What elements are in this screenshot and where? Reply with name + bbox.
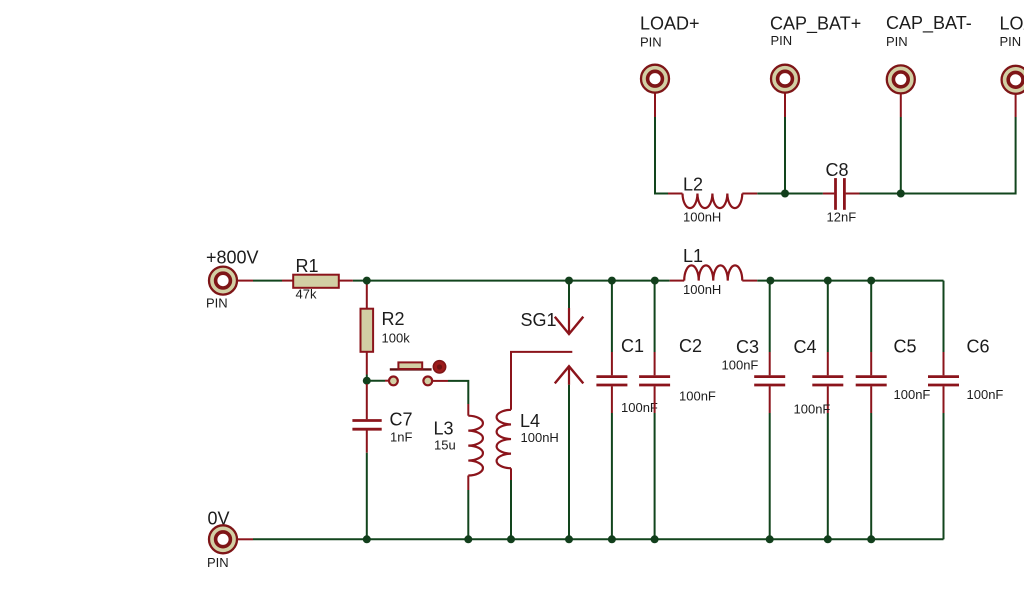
capacitor C7 bbox=[352, 384, 381, 453]
label C2 bbox=[679, 336, 702, 356]
wire +800V to R1 green bbox=[253, 280, 282, 282]
wire top row green L2 to CAP_BAT+ bbox=[757, 193, 785, 195]
value label 100nF (C1) bbox=[621, 400, 658, 415]
inductor L4 with top bar to spark gap bbox=[497, 352, 573, 480]
svg-text:1nF: 1nF bbox=[390, 430, 412, 445]
wire R2 to switch node green bbox=[366, 375, 368, 381]
label R2 bbox=[382, 309, 405, 329]
junction dot SG1 bottom bbox=[565, 535, 573, 543]
svg-text:C2: C2 bbox=[679, 336, 702, 356]
svg-text:100nF: 100nF bbox=[621, 400, 658, 415]
svg-text:+800V: +800V bbox=[206, 248, 259, 268]
wire +800V red stub bbox=[238, 280, 254, 282]
capacitor C6 on right edge bbox=[928, 281, 959, 540]
value label 100nH (L1) bbox=[683, 282, 721, 297]
wire top rail right green bbox=[757, 280, 943, 282]
capacitor C2 bbox=[639, 281, 670, 540]
terminal +800V pin symbol bbox=[209, 267, 237, 295]
wire bottom rail green bbox=[253, 538, 944, 540]
svg-text:R1: R1 bbox=[296, 256, 319, 276]
junction dot at CAP_BAT+ drop bbox=[781, 190, 789, 198]
capacitor C3 bbox=[754, 281, 785, 540]
junction dot C1 top bbox=[608, 277, 616, 285]
terminal LOAD+ label bbox=[640, 14, 700, 50]
junction dot C2 bottom bbox=[651, 535, 659, 543]
terminal CAP_BAT- label bbox=[886, 13, 972, 49]
wire C7 to bottom rail green bbox=[366, 453, 368, 540]
wire L3 to bottom rail green bbox=[467, 490, 469, 539]
junction dot switch node bbox=[363, 377, 371, 385]
svg-text:L4: L4 bbox=[520, 411, 540, 431]
label L1 bbox=[683, 246, 703, 266]
junction dot C3 bottom bbox=[766, 535, 774, 543]
terminal LOAD- pin symbol bbox=[1002, 66, 1024, 94]
svg-text:L1: L1 bbox=[683, 246, 703, 266]
terminal CAP_BAT+ pin symbol bbox=[771, 65, 799, 93]
svg-text:100nF: 100nF bbox=[967, 387, 1004, 402]
capacitor C5 bbox=[856, 281, 887, 540]
wire CAP_BAT- red stub bbox=[900, 94, 902, 117]
wire top rail left green bbox=[353, 280, 670, 282]
junction dot C4 bottom bbox=[824, 535, 832, 543]
wire switch node to left contact bbox=[367, 380, 389, 382]
svg-text:CAP_BAT+: CAP_BAT+ bbox=[770, 14, 861, 35]
wire LOAD- down green bbox=[901, 117, 1016, 194]
resistor R1 bbox=[282, 275, 353, 288]
resistor R2 bbox=[361, 281, 374, 375]
svg-text:C4: C4 bbox=[794, 337, 817, 357]
label L2 bbox=[683, 175, 703, 195]
svg-text:C8: C8 bbox=[826, 160, 849, 180]
svg-text:LOAD+: LOAD+ bbox=[640, 14, 700, 34]
value label 100nF (C4) bbox=[794, 402, 831, 417]
terminal +800V label bbox=[206, 248, 259, 311]
junction dot C5 top bbox=[867, 277, 875, 285]
inductor L1 bbox=[670, 265, 758, 280]
wire CAP_BAT- down green bbox=[900, 117, 902, 194]
spark gap SG1 bbox=[555, 281, 584, 385]
junction dot L4 bottom bbox=[507, 535, 515, 543]
svg-text:100k: 100k bbox=[382, 331, 411, 346]
terminal CAP_BAT- pin symbol bbox=[887, 65, 915, 93]
svg-text:CAP_BAT-: CAP_BAT- bbox=[886, 13, 972, 34]
svg-text:PIN: PIN bbox=[206, 296, 228, 311]
svg-text:100nH: 100nH bbox=[521, 430, 559, 445]
inductor L2 bbox=[668, 194, 757, 209]
junction dot C4 top bbox=[824, 277, 832, 285]
value label 100nH (L2) bbox=[683, 210, 721, 225]
value label 100nH (L4) bbox=[521, 430, 559, 445]
svg-text:100nF: 100nF bbox=[794, 402, 831, 417]
wire 0V red stub bbox=[238, 538, 254, 540]
svg-text:PIN: PIN bbox=[771, 33, 793, 48]
switch actuator red indicator bbox=[433, 361, 445, 373]
terminal CAP_BAT+ label bbox=[770, 14, 861, 49]
terminal 0V pin symbol bbox=[209, 525, 237, 553]
svg-text:C3: C3 bbox=[736, 337, 759, 357]
capacitor C1 bbox=[596, 281, 627, 540]
label C5 bbox=[894, 337, 917, 357]
svg-text:L2: L2 bbox=[683, 175, 703, 195]
junction dot C3/L1 top bbox=[766, 277, 774, 285]
value label 100nF (C3) bbox=[722, 358, 759, 373]
svg-text:15u: 15u bbox=[434, 438, 456, 453]
inductor L3 bbox=[468, 404, 483, 490]
svg-text:L3: L3 bbox=[434, 419, 454, 439]
wire CAP_BAT+ red stub bbox=[784, 93, 786, 117]
svg-text:100nF: 100nF bbox=[722, 358, 759, 373]
label C6 bbox=[967, 337, 990, 357]
value label 100k (R2) bbox=[382, 331, 411, 346]
value label 12nF (C8) bbox=[827, 210, 857, 225]
junction dot at CAP_BAT- drop bbox=[897, 190, 905, 198]
wire LOAD- red stub bbox=[1015, 94, 1017, 117]
svg-text:C1: C1 bbox=[621, 336, 644, 356]
label C3 bbox=[736, 337, 759, 357]
label L4 bbox=[520, 411, 540, 431]
junction dot C1 bottom bbox=[608, 535, 616, 543]
value label 100nF (C2) bbox=[679, 389, 716, 404]
terminal LOAD+ pin symbol bbox=[641, 65, 669, 93]
label C1 bbox=[621, 336, 644, 356]
wire CAP_BAT+ down green bbox=[784, 117, 786, 194]
svg-text:LOAD-: LOAD- bbox=[1000, 14, 1024, 34]
label L3 bbox=[434, 419, 454, 439]
svg-text:12nF: 12nF bbox=[827, 210, 857, 225]
svg-text:C5: C5 bbox=[894, 337, 917, 357]
junction dot C2/L1 top bbox=[651, 277, 659, 285]
label R1 bbox=[296, 256, 319, 276]
svg-text:47k: 47k bbox=[296, 287, 317, 302]
svg-text:100nF: 100nF bbox=[679, 389, 716, 404]
value label 1nF (C7) bbox=[390, 430, 412, 445]
svg-text:PIN: PIN bbox=[1000, 34, 1022, 49]
capacitor C8 bbox=[823, 178, 860, 210]
svg-text:PIN: PIN bbox=[886, 34, 908, 49]
wire LOAD+ red stub bbox=[654, 93, 656, 117]
junction dot C5 bottom bbox=[867, 535, 875, 543]
label C8 bbox=[826, 160, 849, 180]
value label 47k (R1) bbox=[296, 287, 317, 302]
junction dot C7 bottom bbox=[363, 535, 371, 543]
value label 15u (L3) bbox=[434, 438, 456, 453]
wire SG1 to bottom rail green bbox=[568, 385, 570, 540]
svg-text:PIN: PIN bbox=[640, 35, 662, 50]
value label 100nF (C6) bbox=[967, 387, 1004, 402]
svg-text:C6: C6 bbox=[967, 337, 990, 357]
wire L4 to bottom rail green bbox=[510, 480, 512, 539]
wire LOAD+ down green bbox=[655, 117, 668, 194]
value label 100nF (C5) bbox=[894, 387, 931, 402]
label C7 bbox=[390, 410, 413, 430]
label SG1 bbox=[521, 310, 557, 330]
junction dot L3 bottom bbox=[464, 535, 472, 543]
svg-text:R2: R2 bbox=[382, 309, 405, 329]
switch (push button) bbox=[389, 362, 432, 385]
svg-text:PIN: PIN bbox=[207, 555, 229, 570]
svg-text:100nH: 100nH bbox=[683, 282, 721, 297]
svg-text:SG1: SG1 bbox=[521, 310, 557, 330]
wire right contact to L3 top bbox=[432, 381, 468, 404]
svg-text:C7: C7 bbox=[390, 410, 413, 430]
capacitor C4 bbox=[812, 281, 843, 540]
wire top row green CAP_BAT+ to C8 bbox=[785, 193, 823, 195]
svg-text:100nH: 100nH bbox=[683, 210, 721, 225]
terminal 0V label bbox=[207, 509, 230, 571]
label C4 bbox=[794, 337, 817, 357]
junction dot SG1 top bbox=[565, 277, 573, 285]
junction dot R1-R2 top bbox=[363, 277, 371, 285]
terminal LOAD- label bbox=[1000, 14, 1024, 50]
wire top row green C8 to CAP_BAT- bbox=[860, 193, 902, 195]
svg-text:100nF: 100nF bbox=[894, 387, 931, 402]
